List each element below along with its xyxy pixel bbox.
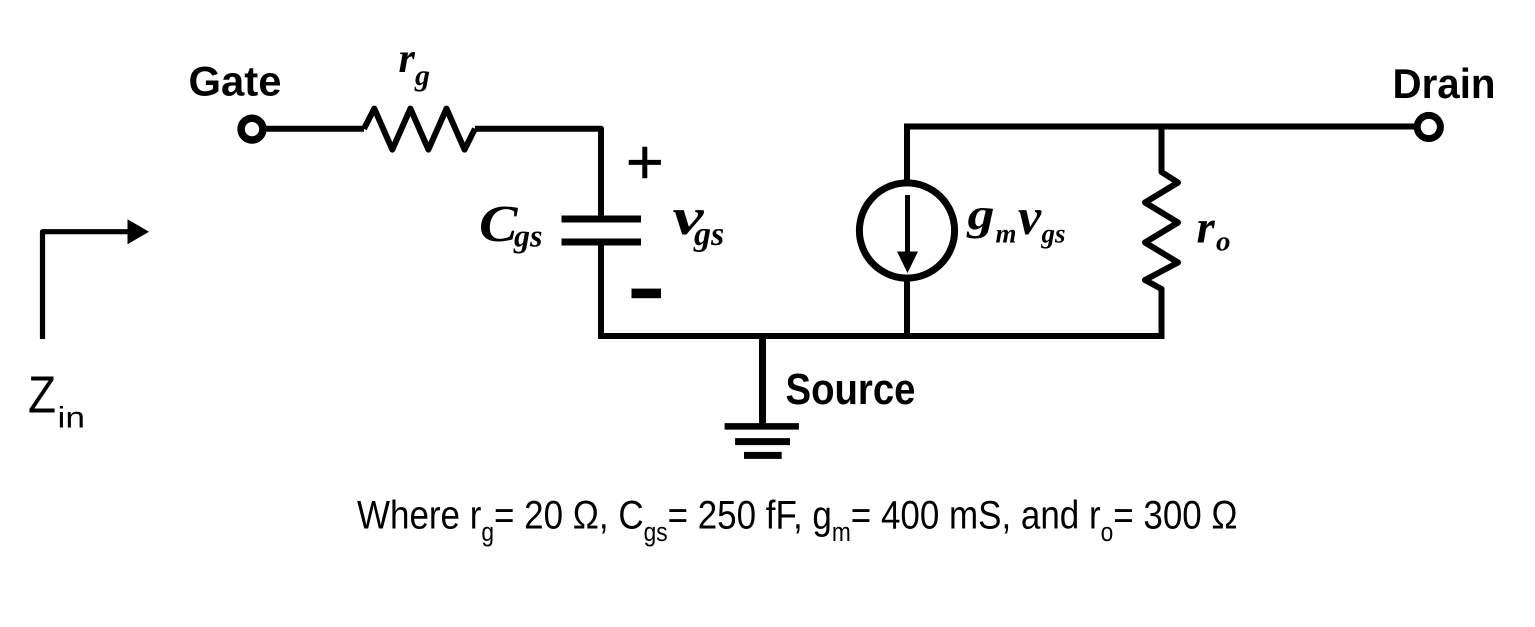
wire current source bottom lead (904, 276, 910, 336)
plus sign of v_gs (629, 147, 661, 179)
svg-text:Gate: Gate (189, 58, 282, 105)
svg-text:g: g (966, 190, 994, 239)
wire bottom rail (598, 333, 1165, 339)
svg-text:in: in (58, 402, 86, 435)
svg-text:m: m (996, 219, 1017, 249)
minus sign of v_gs (632, 289, 662, 299)
svg-text:Z: Z (28, 366, 56, 424)
svg-text:v: v (1018, 189, 1042, 246)
current source arrowhead (897, 252, 918, 274)
gate terminal circle (241, 118, 263, 140)
svg-text:C: C (479, 196, 519, 253)
wire ground stub (759, 336, 766, 424)
svg-text:o: o (1216, 226, 1231, 258)
wire gate terminal to resistor (263, 126, 364, 132)
wire current source top lead (904, 127, 910, 186)
capacitor C_gs top plate (562, 216, 642, 223)
wire Zin vertical+horizontal indicator (43, 232, 129, 339)
node Zin arrowhead (128, 219, 150, 244)
svg-text:g: g (414, 59, 430, 92)
resistor r_o vertical zigzag (1145, 127, 1178, 337)
wire resistor to capacitor top node (475, 129, 601, 216)
svg-text:Where rg= 20 Ω, Cgs= 250 fF, g: Where rg= 20 Ω, Cgs= 250 fF, gm= 400 mS,… (357, 492, 1238, 547)
label equation: Where rg= 20 Ohm, Cgs= 250 fF, gm= 400 mS, and ro= 300 Ohm (357, 492, 1238, 547)
svg-text:r: r (399, 36, 416, 82)
current source G1 circle (859, 183, 954, 278)
capacitor C_gs bottom plate (562, 239, 642, 246)
svg-text:Drain: Drain (1393, 60, 1496, 107)
ground bar 2 (735, 438, 790, 445)
svg-text:Source: Source (786, 365, 916, 414)
wire top rail current source to drain (904, 124, 1417, 130)
svg-text:gs: gs (513, 218, 542, 254)
svg-text:gs: gs (1041, 219, 1066, 249)
svg-text:r: r (1197, 202, 1216, 254)
current source arrow shaft (905, 195, 910, 253)
wire capacitor bottom to ground rail (598, 246, 604, 337)
drain terminal circle (1417, 115, 1440, 138)
svg-text:gs: gs (693, 216, 724, 253)
ground bar 1 (725, 423, 799, 430)
ground bar 3 (744, 452, 782, 459)
resistor r_g zigzag (364, 109, 475, 150)
